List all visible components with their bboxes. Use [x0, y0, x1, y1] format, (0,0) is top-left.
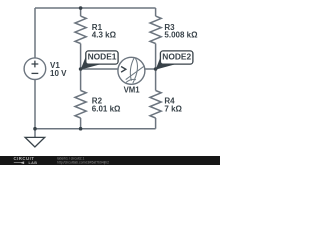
- wire ground stem: [34, 129, 36, 138]
- V1 plus sign: [32, 61, 39, 68]
- voltage source V1 circle: [24, 58, 46, 80]
- V1 minus sign: [32, 72, 39, 74]
- svg-text:7 kΩ: 7 kΩ: [164, 105, 182, 114]
- svg-text:NODE2: NODE2: [162, 52, 191, 62]
- wire right branch between resistors: [155, 44, 157, 91]
- resistor R4 body: [150, 91, 161, 119]
- svg-text:LAB: LAB: [29, 161, 38, 165]
- NODE2 flag box: [160, 51, 193, 64]
- voltmeter lens left arc: [130, 58, 134, 81]
- voltmeter VM1 circle: [118, 57, 145, 84]
- node A (NODE1 junction): [79, 67, 83, 71]
- svg-text:http:⁄⁄circuitlab.com⁄c845af7b: http:⁄⁄circuitlab.com⁄c845af7b94ijh2: [57, 161, 109, 165]
- resistor R1 body: [75, 16, 86, 43]
- svg-text:5.008 kΩ: 5.008 kΩ: [164, 31, 198, 40]
- wire left vertical upper: [34, 8, 36, 58]
- ground symbol: [25, 137, 45, 147]
- wire middle branch between resistors: [80, 44, 82, 91]
- wire right branch lower lead: [155, 118, 157, 129]
- wire right branch upper lead: [155, 8, 157, 16]
- NODE2 flag pointer: [156, 56, 176, 69]
- NODE1 flag box: [86, 51, 118, 64]
- node dot top (middle branch / top wire): [79, 6, 83, 10]
- wire left vertical lower: [34, 79, 36, 128]
- svg-text:10 V: 10 V: [50, 69, 67, 78]
- watermark bar: [0, 156, 220, 165]
- voltmeter polarity mark: [121, 67, 126, 73]
- svg-text:NODE1: NODE1: [88, 52, 117, 62]
- wire top horizontal: [35, 7, 156, 9]
- wire middle branch lower lead: [80, 118, 82, 129]
- node dot bottom-left (ground junction): [33, 127, 37, 131]
- voltmeter lens right arc: [133, 58, 138, 83]
- svg-text:4.3 kΩ: 4.3 kΩ: [92, 31, 117, 40]
- wire middle horizontal left (node1 to voltmeter): [81, 68, 118, 70]
- NODE1 flag pointer: [81, 56, 101, 69]
- voltmeter needle: [126, 66, 145, 80]
- voltmeter scale arc: [126, 79, 136, 82]
- watermark logo wire: [14, 162, 24, 164]
- wire middle branch upper lead: [80, 8, 82, 16]
- svg-text:VM1: VM1: [124, 86, 141, 95]
- wire middle horizontal right (voltmeter to node2): [145, 68, 156, 70]
- wire bottom horizontal: [35, 128, 156, 130]
- resistor R2 body: [75, 91, 86, 119]
- node B (NODE2 junction): [154, 67, 158, 71]
- svg-text:6.01 kΩ: 6.01 kΩ: [92, 105, 121, 114]
- node dot bottom (middle branch / bottom wire): [79, 127, 83, 131]
- resistor R3 body: [150, 16, 161, 43]
